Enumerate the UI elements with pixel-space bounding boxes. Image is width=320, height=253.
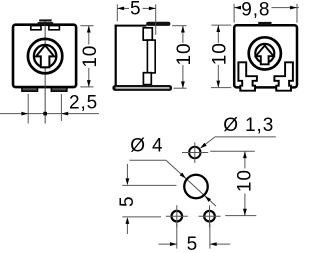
- svg-text:10: 10: [209, 42, 230, 65]
- dim 2,5 extension line right: [60, 94, 62, 121]
- pin hole bottom-left circle: [172, 211, 183, 222]
- dim 10 line lower segment: [244, 194, 246, 216]
- dim 10 top extension: [172, 25, 187, 27]
- dim 5 left arrow up: [126, 217, 130, 224]
- dim 9,8 extension line right: [296, 4, 298, 23]
- bottom-left crosshair vertical: [176, 205, 178, 227]
- svg-text:10: 10: [80, 45, 101, 68]
- svg-text:5: 5: [187, 234, 198, 253]
- pin hole top circle: [189, 147, 200, 158]
- dim 10 line lower segment: [88, 68, 90, 87]
- dim 10 top extension line: [80, 25, 93, 27]
- bottom rail white gap: [116, 87, 170, 88]
- dim 10 line upper segment: [182, 26, 184, 43]
- dim 10 arrow down: [243, 209, 247, 216]
- dim 2,5 extension line left: [27, 94, 29, 124]
- dim 2,5 center square: [43, 112, 47, 116]
- dim 10 arrow up: [181, 26, 185, 33]
- dim 5 left arrow down: [126, 178, 130, 185]
- dim 5 arrow right: [149, 7, 156, 11]
- dim 9,8 arrow left: [234, 6, 241, 10]
- svg-text:2,5: 2,5: [69, 92, 98, 113]
- dim 10 arrow down: [181, 81, 185, 88]
- dim 10 arrow up: [87, 26, 91, 33]
- left edge: [115, 25, 117, 87]
- dim 9,8 line right segment: [272, 7, 300, 9]
- svg-text:9,8: 9,8: [241, 0, 270, 20]
- bottom-right pin tab: [51, 87, 67, 91]
- dim 5 extension line right: [155, 4, 157, 35]
- right contact staple: [274, 62, 293, 90]
- dim 10 label: [174, 43, 195, 66]
- top-left inner notch: [31, 26, 41, 30]
- dim 5 line right segment: [143, 7, 156, 9]
- dim 10 line lower segment: [182, 65, 184, 88]
- top hole crosshair vertical: [194, 142, 196, 163]
- dim 10 arrow down: [87, 80, 91, 87]
- Ø4 leader horizontal: [130, 159, 167, 161]
- dim 10 label: [209, 42, 230, 65]
- dim 10 label: [234, 169, 255, 192]
- shaft bar: [146, 22, 170, 26]
- dim 10 arrow up: [216, 25, 220, 32]
- Ø4 arrow lower-right: [205, 196, 211, 202]
- bottom contact square: [143, 73, 151, 85]
- Ø1,3 leader arrow: [200, 143, 207, 149]
- dim 5 left label: [117, 196, 138, 207]
- dim 9,8 line left segment: [234, 7, 241, 9]
- outer rotor circle: [249, 37, 281, 69]
- outer rotor circle: [28, 39, 62, 73]
- dim 5 left line lower: [126, 224, 128, 235]
- dim 10 bottom extension line: [80, 86, 93, 88]
- dim 10 label: [80, 45, 101, 68]
- dim 5 bottom line left: [159, 243, 177, 245]
- dim 5 extension line left: [116, 4, 118, 21]
- rotor arrow: [36, 45, 54, 67]
- svg-text:10: 10: [174, 43, 195, 66]
- Ø1,3 leader diagonal: [201, 137, 215, 148]
- contact channel: [147, 40, 155, 73]
- dim 5 bottom extension left: [176, 223, 178, 248]
- dim 5 bottom arrow right: [170, 242, 177, 246]
- bottom-left crosshair horizontal: [166, 215, 188, 217]
- top-right inner notch: [49, 26, 60, 30]
- dim 10 top extension: [210, 150, 255, 152]
- top tab upper bar: [39, 19, 52, 21]
- svg-text:Ø 1,3: Ø 1,3: [223, 115, 274, 136]
- left contact staple: [238, 62, 257, 90]
- bottom rail bar: [112, 85, 172, 91]
- top tab lower bar: [38, 22, 54, 25]
- center line: [44, 20, 46, 124]
- svg-text:5: 5: [130, 0, 141, 20]
- Ø4 arrow upper-left: [180, 173, 186, 179]
- body outline: [234, 25, 297, 87]
- svg-text:10: 10: [234, 169, 255, 192]
- central hole circle Ø4: [184, 175, 208, 199]
- Ø4 leader diagonal: [166, 160, 216, 206]
- dim 5 left line upper: [126, 164, 128, 179]
- dim 2,5 line: [0, 113, 99, 115]
- dim 5 left extension upper: [122, 184, 176, 186]
- dim 5 left extension lower: [122, 216, 161, 218]
- top tab: [258, 22, 271, 25]
- dim 5 bottom arrow left: [210, 242, 217, 246]
- dim 2,5 arrow right: [21, 112, 28, 116]
- dim 10 line upper segment: [244, 151, 246, 168]
- dim 10 arrow up: [243, 151, 247, 158]
- dim 2,5 arrow left: [61, 112, 68, 116]
- dim 5 line left segment: [117, 7, 129, 9]
- svg-text:Ø 4: Ø 4: [130, 136, 163, 157]
- body outline: [13, 25, 76, 87]
- bottom-right crosshair horizontal: [199, 215, 221, 217]
- bottom-right crosshair vertical: [209, 205, 211, 227]
- bottom-left pin tab: [22, 87, 38, 91]
- inner rotor circle: [255, 44, 274, 63]
- inner rotor circle: [34, 45, 56, 67]
- dim 9,8 arrow right: [290, 6, 297, 10]
- rotor arrow: [256, 46, 274, 65]
- dim 10 line upper segment: [88, 26, 90, 45]
- svg-text:5: 5: [117, 196, 138, 207]
- top contact square: [143, 28, 152, 40]
- dim 10 bottom extension: [225, 215, 256, 217]
- dim 10 arrow down: [216, 81, 220, 88]
- dim 10 bottom extension: [211, 87, 231, 89]
- dim 9,8 extension line left: [233, 4, 235, 23]
- dim 10 line upper segment: [217, 25, 219, 43]
- dim 5 arrow left: [117, 7, 124, 11]
- dim 5 bottom extension right: [209, 223, 211, 248]
- dim 10 top extension: [211, 24, 231, 26]
- top edge: [115, 25, 147, 27]
- dim 10 line lower segment: [217, 65, 219, 88]
- dim 10 bottom extension: [174, 87, 187, 89]
- top hole crosshair horizontal: [182, 152, 208, 154]
- dim 5 bottom line right: [210, 243, 230, 245]
- Ø1,3 leader horizontal: [215, 136, 276, 138]
- pin hole bottom-right circle: [204, 211, 215, 222]
